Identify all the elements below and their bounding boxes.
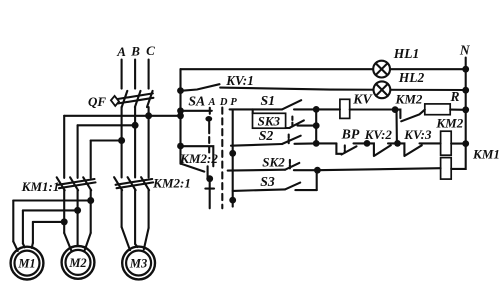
- svg-text:KV:1: KV:1: [225, 73, 254, 88]
- wire SK2 row to KM1 coil: [317, 168, 440, 170]
- svg-text:М1: М1: [17, 257, 35, 271]
- switch SK2 blade: [285, 163, 299, 170]
- wire R to N rail: [450, 109, 466, 111]
- wire KM2 node down: [395, 110, 397, 144]
- wire branch from pole C to control rail: [64, 115, 180, 117]
- circuit breaker QF blade pole B: [135, 91, 141, 107]
- node rail KM2:2 row: [177, 143, 184, 150]
- node N row3: [462, 106, 469, 113]
- selector position line A solid part: [208, 122, 210, 134]
- svg-text:КМ2: КМ2: [395, 91, 423, 106]
- wire KM2:1 output 3 slant to M3: [144, 228, 149, 250]
- wire M1 branch 3 horizontal: [33, 221, 64, 223]
- contact KM2 step: [395, 110, 400, 119]
- wire KM1:1 output 1 slant to M2: [64, 233, 71, 250]
- wire SK3 lead right: [298, 125, 317, 127]
- wire M1 branch 1 vertical: [12, 201, 14, 242]
- circuit breaker QF linkage bar lower: [118, 98, 153, 104]
- contactor KM1:1 linkage upper: [58, 179, 95, 185]
- selector SA end tick: [209, 108, 211, 114]
- svg-text:М3: М3: [129, 257, 147, 271]
- switch SK2 lead left: [228, 169, 285, 172]
- node KM2:2 output: [206, 175, 213, 182]
- wire KM1:1 feed 3: [90, 141, 92, 178]
- selector SA position mark ellipse: [205, 116, 212, 122]
- node junction SK3 row: [313, 122, 320, 129]
- relay coil KV: [340, 99, 350, 118]
- wire M1 branch 1 horizontal: [13, 199, 90, 201]
- switch S2 blade: [282, 136, 301, 144]
- svg-text:КМ1: КМ1: [472, 146, 500, 161]
- wire main row from S2 junction: [316, 142, 336, 144]
- contactor KM2:1 linkage upper: [116, 179, 153, 185]
- node KV:3 left: [394, 140, 401, 147]
- wire KM1:1 output 1: [63, 190, 65, 233]
- wire phase C drop: [148, 60, 150, 89]
- node junction S2 row: [313, 140, 320, 147]
- selector position line A dash 1: [208, 137, 210, 143]
- wire KM2:1 output 1: [121, 190, 123, 227]
- node position line P mark 1: [229, 150, 236, 157]
- node N row2: [462, 87, 469, 94]
- wire pole C vertical below QF: [148, 107, 150, 177]
- node pole A tap: [118, 137, 125, 144]
- wire branch from pole A: [91, 139, 122, 141]
- svg-text:HL1: HL1: [393, 46, 420, 61]
- contact BP tick 2: [344, 150, 346, 153]
- node SK2 S3 junction: [314, 167, 321, 174]
- wire KM2:1 output 2 slant to M3: [135, 244, 138, 247]
- wire row2 to N: [220, 88, 466, 90]
- switch SK2 tick 1: [289, 160, 291, 163]
- switch S3 lead left: [233, 189, 285, 191]
- node N row1: [462, 66, 469, 73]
- node KV:2 left: [364, 140, 371, 147]
- circuit breaker QF mechanism square: [111, 96, 119, 106]
- motor M2 outer circle: [62, 246, 95, 279]
- lamp HL1: [373, 61, 390, 78]
- circuit breaker QF blade pole C: [147, 91, 153, 107]
- selector position line P: [232, 110, 234, 207]
- svg-text:КМ1:1: КМ1:1: [21, 179, 60, 194]
- switch S1 lead right: [294, 108, 316, 110]
- node junction S1 row: [313, 106, 320, 113]
- wire S3 to SK2 junction: [316, 170, 318, 190]
- wire KM1:1 output 3: [90, 190, 92, 233]
- node N KM2 row: [462, 140, 469, 147]
- wire S1 row to KV coil: [316, 108, 340, 110]
- wire KM1:1 output 3 slant to M2: [85, 233, 91, 250]
- motor M1 outer circle: [11, 247, 44, 280]
- motor M3 inner circle: [126, 251, 151, 276]
- wire phase A drop: [121, 60, 123, 89]
- contact BP blade: [342, 146, 357, 154]
- svg-text:P: P: [230, 97, 237, 108]
- contact KM2 blade: [401, 110, 425, 122]
- sensor SK3 tick 1: [291, 117, 293, 120]
- node M1 branch 1: [87, 197, 94, 204]
- node pole C tap: [145, 112, 152, 119]
- wire pole B vertical below QF: [134, 107, 136, 177]
- circuit breaker QF linkage bar upper: [118, 93, 153, 99]
- svg-text:SA: SA: [188, 93, 205, 108]
- selector position line D dashed: [221, 108, 223, 209]
- node pole B tap: [132, 122, 139, 129]
- switch S2 lead left: [231, 144, 282, 146]
- wire KM2:2 output down: [209, 177, 211, 208]
- svg-text:QF: QF: [88, 94, 106, 109]
- wire KM1 coil to N rail: [451, 144, 466, 169]
- contactor KM2:1 blade 2: [128, 177, 136, 190]
- N rail: [465, 58, 467, 144]
- wire branch from pole B: [78, 124, 136, 126]
- wire KV coil to KM2 contact: [350, 108, 395, 110]
- wire KM1:1 output 2: [77, 190, 79, 246]
- wire KM2:1 output 2: [134, 190, 136, 244]
- contact KV:2 blade: [374, 145, 391, 156]
- svg-text:М2: М2: [68, 256, 86, 270]
- relay contact KV:1 blade: [181, 84, 220, 91]
- svg-text:SK2: SK2: [262, 154, 285, 169]
- contact KV:3 blade: [404, 145, 421, 156]
- svg-text:D: D: [219, 97, 228, 108]
- contact BP tick 1: [344, 145, 346, 148]
- wire KM2:2 cross tick: [205, 188, 214, 190]
- wire KM2:1 output 1 slant to M3: [122, 227, 130, 250]
- node control rail tap: [177, 112, 184, 119]
- contact KM2:2 blade: [181, 164, 205, 172]
- circuit breaker QF blade pole A: [122, 91, 128, 107]
- switch S1 blade: [282, 100, 301, 109]
- svg-text:N: N: [459, 42, 471, 57]
- svg-text:R: R: [449, 89, 459, 104]
- contactor KM1:1 blade 2: [70, 177, 78, 190]
- lamp HL2: [374, 81, 391, 98]
- contactor coil KM2: [441, 131, 452, 155]
- wire KM1:1 feed 1: [63, 116, 65, 178]
- contact BP step: [336, 143, 341, 153]
- motor M2 inner circle: [66, 250, 91, 275]
- svg-text:S3: S3: [260, 174, 275, 189]
- svg-text:S1: S1: [261, 93, 276, 108]
- contactor KM2:1 blade 3: [141, 177, 149, 190]
- selector position line A dash 2: [208, 147, 210, 153]
- contactor KM1:1 blade 1: [57, 177, 65, 190]
- wire pole A vertical below QF: [121, 107, 123, 177]
- svg-text:В: В: [130, 43, 140, 58]
- sensor SK3 blade: [289, 120, 304, 128]
- wire KV:2 to KV:3: [388, 142, 398, 144]
- node rail row2: [177, 87, 184, 94]
- svg-text:С: С: [146, 43, 155, 58]
- wire junction vertical: [315, 109, 317, 143]
- sensor SK3 box: [253, 113, 286, 128]
- svg-text:HL2: HL2: [398, 70, 425, 85]
- wire phase B drop: [134, 60, 136, 89]
- contact KV:3 step: [398, 143, 405, 155]
- contact KV:2 step: [367, 143, 374, 155]
- resistor R: [425, 104, 450, 115]
- svg-text:А: А: [207, 97, 215, 108]
- wire rail to KM2:2 fixed side: [181, 146, 214, 166]
- wire M1 branch 3 slant: [32, 243, 33, 248]
- motor M1 inner circle: [15, 251, 40, 276]
- switch S3 blade: [285, 183, 300, 190]
- node KM2 contact left: [392, 106, 399, 113]
- svg-text:КМ2: КМ2: [435, 116, 463, 131]
- sensor SK3 tick 2: [291, 123, 293, 127]
- svg-text:ВР: ВР: [341, 127, 360, 142]
- wire KM1:1 feed 2: [77, 125, 79, 178]
- svg-text:KV:3: KV:3: [403, 127, 432, 142]
- switch S3 lead right: [295, 189, 316, 191]
- sensor SK3 contact stub: [286, 127, 290, 129]
- contactor coil KM1: [441, 158, 452, 180]
- svg-text:SK3: SK3: [258, 113, 281, 128]
- selector SA blade: [181, 110, 212, 112]
- wire KV:3 to KM2 coil: [420, 142, 441, 144]
- switch S2 tick 2: [288, 140, 290, 144]
- wire M1 branch 3 vertical: [32, 222, 34, 243]
- motor M3 outer circle: [122, 247, 155, 280]
- switch S2 lead right: [295, 142, 317, 145]
- switch SK2 lead right: [294, 169, 318, 171]
- node position line P mark 2: [229, 197, 236, 204]
- switch S1 lead left: [230, 108, 282, 110]
- contact KM2:2 fixed tick: [207, 166, 209, 176]
- wire KM2:1 output 3: [148, 190, 150, 228]
- wire M1 branch 2 vertical: [22, 210, 24, 243]
- wire top row to N: [181, 68, 466, 70]
- contactor KM2:1 blade 1: [114, 177, 122, 190]
- node M1 branch 2: [74, 207, 81, 214]
- svg-text:КМ2:1: КМ2:1: [152, 175, 191, 190]
- switch S2 tick 1: [288, 135, 290, 138]
- wire M1 branch 1 slant: [13, 242, 17, 251]
- control rail left: [179, 69, 181, 164]
- node M1 branch 3: [61, 218, 68, 225]
- wire BP to KV:2: [354, 142, 368, 144]
- contactor KM1:1 blade 3: [83, 177, 91, 190]
- wire M1 branch 2 horizontal: [23, 209, 78, 211]
- svg-text:А: А: [116, 44, 126, 59]
- wire M1 branch 2 slant: [23, 244, 25, 248]
- svg-text:KV:2: KV:2: [364, 127, 393, 142]
- svg-text:KV: KV: [352, 91, 373, 106]
- svg-text:S2: S2: [259, 128, 274, 143]
- contactor KM2:1 linkage lower: [117, 182, 154, 188]
- wire KM2 coil to N rail: [451, 143, 466, 145]
- sensor SK3 hanger: [252, 109, 254, 113]
- contactor KM1:1 linkage lower: [59, 182, 96, 188]
- switch SK2 tick 2: [289, 165, 291, 169]
- node rail SA row: [177, 107, 184, 114]
